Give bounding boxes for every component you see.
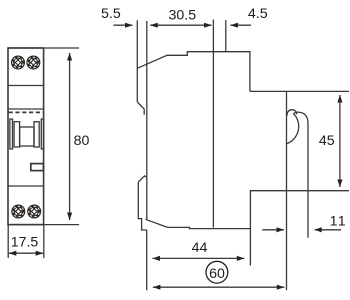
screw B1 xyxy=(12,205,25,218)
dim 17.5 line xyxy=(9,252,43,254)
dim 30.5 line xyxy=(150,24,211,26)
side ext 4.5 xyxy=(225,20,227,52)
front section line mid xyxy=(8,108,44,110)
din clip tab outline xyxy=(293,112,308,238)
arrow 5.5 right xyxy=(125,23,133,28)
arrow 11 left xyxy=(314,227,322,232)
arrow 60 right xyxy=(277,285,285,290)
arrow 80 up xyxy=(67,53,72,61)
front view outline xyxy=(8,48,44,225)
screw B2 xyxy=(28,205,41,218)
side bottom extension 45 xyxy=(250,190,349,192)
arrow 17.5 right xyxy=(36,251,44,256)
arrow 44 left xyxy=(153,256,161,261)
side top extension 45 xyxy=(250,90,349,92)
arrow 45 up xyxy=(337,95,342,103)
dim 5.5 leader xyxy=(114,24,133,26)
indicator window xyxy=(31,164,44,171)
arrow 30.5 right xyxy=(204,23,212,28)
toggle inner plate left xyxy=(14,122,20,147)
dim 4.5 leader xyxy=(230,24,251,26)
arrow 45 down xyxy=(337,180,342,188)
svg-text:17.5: 17.5 xyxy=(11,234,39,250)
toggle inner plate right xyxy=(34,122,39,147)
svg-text:5.5: 5.5 xyxy=(101,6,121,22)
dim 44/60 ext left xyxy=(146,230,148,290)
front dashed line xyxy=(9,111,43,113)
svg-text:44: 44 xyxy=(192,240,208,256)
side right lower vertical xyxy=(249,191,251,266)
side inner vertical 30.5 xyxy=(212,20,214,228)
arrow 4.5 left xyxy=(230,23,238,28)
dim 80 line xyxy=(69,53,71,220)
toggle handle xyxy=(20,127,34,146)
top extension line xyxy=(8,47,79,49)
toggle outer plate left xyxy=(10,119,13,149)
dim 17.5 ext right xyxy=(43,225,45,258)
svg-text:60: 60 xyxy=(209,266,225,282)
bottom extension line xyxy=(8,224,79,226)
side rear edge xyxy=(286,91,288,290)
side lower bar roof xyxy=(138,176,147,182)
dim 11 leader left xyxy=(262,229,284,231)
toggle outer plate right xyxy=(41,119,43,149)
front section line lower xyxy=(8,185,44,187)
front section line upper xyxy=(8,85,44,87)
din clip big arc xyxy=(287,113,299,143)
arrow 11 right xyxy=(277,227,285,232)
arrow 80 down xyxy=(67,213,72,221)
side bottom diagonal xyxy=(145,219,167,227)
side line A chamfer xyxy=(137,102,144,115)
side body bottom xyxy=(168,227,251,228)
dim 60 line xyxy=(153,286,284,288)
svg-text:45: 45 xyxy=(319,133,335,149)
screw T1 xyxy=(12,56,25,69)
side front face line B xyxy=(146,21,148,219)
side front face line A xyxy=(136,20,138,102)
svg-text:11: 11 xyxy=(330,213,347,229)
side top-left diagonal xyxy=(137,52,250,92)
dim 17.5 ext left xyxy=(7,225,9,258)
svg-text:80: 80 xyxy=(74,133,90,149)
dim 45 line xyxy=(339,95,341,187)
arrow 17.5 left xyxy=(9,251,16,256)
screw T2 xyxy=(27,56,40,69)
dim 60 circle xyxy=(206,261,228,283)
svg-text:4.5: 4.5 xyxy=(248,6,268,22)
side lower bar left edge xyxy=(138,182,146,230)
dim 11 leader right xyxy=(315,229,341,231)
svg-text:30.5: 30.5 xyxy=(169,8,197,24)
din clip small arc xyxy=(287,110,297,116)
arrow 30.5 left xyxy=(150,23,158,28)
arrow 60 left xyxy=(153,285,161,290)
arrow 44 right xyxy=(237,256,245,261)
dim 44 line xyxy=(153,257,245,259)
